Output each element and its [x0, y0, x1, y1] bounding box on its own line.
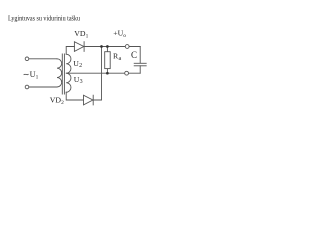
wire secondary bottom stub down — [66, 92, 83, 100]
input terminal bottom — [25, 85, 29, 89]
transformer core — [62, 54, 64, 94]
svg-text:∼U1: ∼U1 — [23, 70, 39, 80]
svg-text:Lygintuvas su viduriniu tašku: Lygintuvas su viduriniu tašku — [8, 13, 80, 22]
wire right branch upper — [139, 47, 141, 64]
input terminal top — [25, 57, 29, 61]
svg-text:Ra: Ra — [113, 51, 122, 61]
wire top-left from input terminal to primary — [29, 58, 57, 60]
svg-text:U2: U2 — [73, 59, 82, 69]
svg-text:C: C — [131, 50, 137, 60]
capacitor C bottom plate — [134, 65, 146, 67]
junction dot top rail resistor — [106, 45, 109, 48]
transformer T primary winding — [57, 59, 62, 87]
diode VD1 cathode bar — [83, 42, 85, 52]
output terminal bottom — [125, 71, 129, 75]
transformer T secondary winding — [66, 54, 71, 92]
junction dot bottom rail resistor — [106, 72, 109, 75]
wire VD2 cathode up to top rail — [93, 47, 101, 101]
wire secondary top stub to top rail — [66, 47, 74, 55]
svg-text:+Uo: +Uo — [113, 29, 126, 39]
diode VD2 cathode bar — [92, 95, 94, 105]
resistor Ra body — [105, 52, 111, 69]
wire top rail — [84, 46, 140, 48]
junction dot top rail VD2 — [100, 45, 103, 48]
diode VD2 — [84, 95, 93, 105]
resistor Ra stubs — [106, 47, 108, 74]
svg-text:VD2: VD2 — [50, 96, 64, 106]
wire bottom rail (center tap to capacitor) — [66, 72, 140, 74]
output terminal top — [125, 45, 129, 49]
capacitor C top plate — [134, 62, 146, 64]
diode VD1 — [74, 42, 83, 52]
wire right branch lower — [139, 66, 141, 73]
wire bottom-left from input terminal to primary — [29, 86, 57, 88]
svg-text:U3: U3 — [74, 75, 83, 85]
svg-text:VD1: VD1 — [74, 29, 88, 39]
